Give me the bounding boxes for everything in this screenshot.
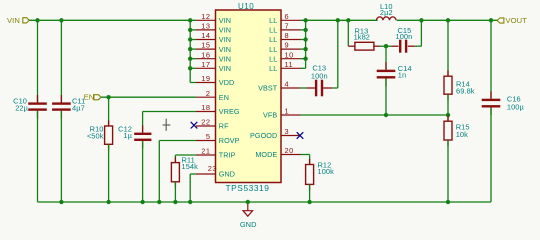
no-connect X pin 22 RF xyxy=(191,122,198,129)
svg-text:GND: GND xyxy=(240,220,257,229)
U10 pin 1 VFB xyxy=(263,107,300,120)
wire ROVP to GND xyxy=(159,141,196,203)
svg-text:RF: RF xyxy=(219,122,229,131)
junction VIN C10 xyxy=(35,18,39,22)
svg-text:VBST: VBST xyxy=(258,84,278,93)
junction snubber C14 xyxy=(384,44,388,48)
resistor R11 xyxy=(171,156,198,203)
svg-text:100n: 100n xyxy=(396,32,413,41)
svg-text:13: 13 xyxy=(201,22,210,31)
svg-text:LL: LL xyxy=(269,54,277,63)
op-amp U10 TPS53319 body xyxy=(216,10,282,183)
svg-text:VIN: VIN xyxy=(219,45,231,54)
junction LL C13 xyxy=(336,18,340,22)
junction VIN C11 xyxy=(59,18,63,22)
svg-text:LL: LL xyxy=(269,45,277,54)
svg-text:VIN: VIN xyxy=(219,35,231,44)
svg-text:69.8k: 69.8k xyxy=(456,87,475,96)
capacitor C11 xyxy=(52,20,85,202)
svg-text:100n: 100n xyxy=(311,71,328,80)
svg-text:100µ: 100µ xyxy=(507,103,525,112)
U10 pin 18 VREG xyxy=(196,103,240,116)
svg-text:19: 19 xyxy=(201,74,210,83)
U10 pin 17 VIN xyxy=(196,60,231,73)
wire GND rail xyxy=(38,201,492,203)
svg-text:6: 6 xyxy=(285,12,290,21)
ground symbol xyxy=(240,202,257,229)
junction VIN bus pin15 xyxy=(188,47,192,51)
junction VFB C14 xyxy=(384,113,388,117)
wire LL bus vertical xyxy=(301,20,306,68)
wire C13 to LL node xyxy=(332,20,338,88)
junction GND R12 xyxy=(307,200,311,204)
junction GND C11 xyxy=(59,200,63,204)
svg-text:VOUT: VOUT xyxy=(506,16,528,25)
svg-text:LL: LL xyxy=(269,26,277,35)
svg-text:TRIP: TRIP xyxy=(219,151,236,160)
svg-text:11: 11 xyxy=(285,60,294,69)
svg-text:VIN: VIN xyxy=(7,16,20,25)
svg-text:1n: 1n xyxy=(398,70,406,79)
svg-text:EN: EN xyxy=(219,93,229,102)
svg-text:<50k: <50k xyxy=(87,131,104,140)
svg-text:7: 7 xyxy=(285,22,290,31)
junction VOUT C16 xyxy=(489,18,493,22)
svg-text:LL: LL xyxy=(269,64,277,73)
wire VREG xyxy=(143,112,196,133)
capacitor C15 xyxy=(392,26,415,53)
wire GND pin 23 xyxy=(190,174,196,202)
capacitor C13 xyxy=(306,64,332,97)
capacitor C10 xyxy=(13,20,47,202)
svg-text:1k82: 1k82 xyxy=(354,32,370,41)
svg-text:4µ7: 4µ7 xyxy=(72,103,85,112)
U10 pin 8 LL xyxy=(269,31,300,44)
junction LL bus pin7 xyxy=(303,28,307,32)
junction GND R11 xyxy=(173,200,177,204)
svg-text:18: 18 xyxy=(201,103,210,112)
junction VIN bus pin17 xyxy=(188,66,192,70)
svg-text:VIN: VIN xyxy=(219,26,231,35)
svg-text:PGOOD: PGOOD xyxy=(250,131,277,140)
junction LL top xyxy=(303,18,307,22)
capacitor C14 xyxy=(377,46,412,115)
wire EN xyxy=(101,96,196,98)
hierarchical label VOUT xyxy=(497,16,527,25)
svg-text:5: 5 xyxy=(206,132,211,141)
svg-text:17: 17 xyxy=(201,60,210,69)
U10 pin 22 RF xyxy=(196,118,229,131)
svg-text:LL: LL xyxy=(269,16,277,25)
U10 pin 19 VDD xyxy=(196,74,234,87)
svg-text:1µ: 1µ xyxy=(123,131,132,140)
svg-text:3: 3 xyxy=(285,127,290,136)
U10 pin 9 LL xyxy=(269,41,300,54)
svg-text:20: 20 xyxy=(285,146,294,155)
svg-text:U10: U10 xyxy=(238,2,254,11)
junction LL bus pin10 xyxy=(303,57,307,61)
wire LL to VOUT top xyxy=(301,19,498,21)
U10 pin 15 VIN xyxy=(196,41,231,54)
junction VFB divider xyxy=(446,113,450,117)
U10 pin 5 ROVP xyxy=(196,132,240,145)
svg-text:12: 12 xyxy=(201,12,210,21)
svg-text:8: 8 xyxy=(285,31,290,40)
junction GND C12 xyxy=(140,200,144,204)
U10 pin 4 VBST xyxy=(258,80,300,93)
junction GND ROVP xyxy=(157,200,161,204)
U10 pin 14 VIN xyxy=(196,31,231,44)
junction GND symbol xyxy=(246,200,250,204)
junction VIN bus pin14 xyxy=(188,37,192,41)
wire TRIP xyxy=(175,155,196,163)
U10 reference label xyxy=(238,2,254,11)
U10 pin 2 EN xyxy=(196,89,229,102)
svg-text:9: 9 xyxy=(285,41,290,50)
wire MODE xyxy=(301,155,310,165)
svg-text:GND: GND xyxy=(219,170,235,179)
svg-text:VIN: VIN xyxy=(219,64,231,73)
svg-text:TPS53319: TPS53319 xyxy=(226,183,270,193)
svg-text:21: 21 xyxy=(201,147,210,156)
junction EN R10 xyxy=(106,95,110,99)
svg-text:4: 4 xyxy=(285,80,290,89)
junction VIN top xyxy=(188,18,192,22)
origin marker cross xyxy=(163,119,171,131)
svg-text:10: 10 xyxy=(285,50,294,59)
U10 pin 20 MODE xyxy=(255,146,300,159)
wire snubber right xyxy=(415,20,422,46)
junction GND R15 xyxy=(446,200,450,204)
svg-text:VREG: VREG xyxy=(219,107,240,116)
svg-text:22µ: 22µ xyxy=(15,103,28,112)
svg-text:23: 23 xyxy=(208,164,217,173)
hierarchical label EN xyxy=(84,92,102,101)
inductor L10 xyxy=(377,2,397,21)
resistor R10 xyxy=(87,97,113,202)
U10 value TPS53319 xyxy=(226,183,270,193)
svg-text:14: 14 xyxy=(201,31,210,40)
svg-text:154k: 154k xyxy=(182,162,199,171)
svg-text:15: 15 xyxy=(201,41,210,50)
wire VFB xyxy=(301,114,449,116)
resistor R15 xyxy=(444,115,470,202)
junction VIN bus pin13 xyxy=(188,28,192,32)
svg-text:1: 1 xyxy=(285,107,290,116)
svg-text:VDD: VDD xyxy=(219,78,234,87)
junction GND pin23 xyxy=(188,200,192,204)
U10 pin 7 LL xyxy=(269,22,300,35)
U10 pin 23 GND xyxy=(196,164,235,179)
svg-text:16: 16 xyxy=(201,50,210,59)
wire VIN bus vertical xyxy=(190,20,196,82)
hierarchical label VIN xyxy=(7,16,29,25)
junction VOUT R14 xyxy=(446,18,450,22)
no-connect X pin 3 PGOOD xyxy=(297,132,304,139)
wire VIN rail top xyxy=(29,19,196,21)
junction GND R10 xyxy=(106,200,110,204)
resistor R14 xyxy=(444,20,475,115)
svg-text:VIN: VIN xyxy=(219,54,231,63)
junction snubber left top xyxy=(346,18,350,22)
junction VIN bus pin16 xyxy=(188,57,192,61)
U10 pin 3 PGOOD xyxy=(250,127,300,140)
junction LL bus pin9 xyxy=(303,47,307,51)
svg-text:2: 2 xyxy=(206,89,211,98)
junction LL bus pin8 xyxy=(303,37,307,41)
resistor R12 xyxy=(306,159,335,202)
svg-text:100k: 100k xyxy=(318,167,335,176)
U10 pin 16 VIN xyxy=(196,50,231,63)
U10 pin 10 LL xyxy=(269,50,300,63)
svg-text:VFB: VFB xyxy=(263,111,277,120)
svg-text:MODE: MODE xyxy=(255,150,277,159)
U10 pin 21 TRIP xyxy=(196,147,236,160)
wire R13 to C15 xyxy=(380,45,392,47)
junction snubber right top xyxy=(419,18,423,22)
svg-text:LL: LL xyxy=(269,35,277,44)
capacitor C16 xyxy=(482,20,525,202)
U10 pin 13 VIN xyxy=(196,22,231,35)
capacitor C12 xyxy=(118,124,151,202)
wire snubber left xyxy=(348,20,355,46)
svg-text:22: 22 xyxy=(201,118,210,127)
U10 pin 12 VIN xyxy=(196,12,231,25)
svg-text:2µ2: 2µ2 xyxy=(380,8,393,17)
svg-text:VIN: VIN xyxy=(219,16,231,25)
svg-text:ROVP: ROVP xyxy=(219,136,240,145)
U10 pin 11 LL xyxy=(269,60,300,73)
wire VBST xyxy=(301,87,307,89)
svg-text:10k: 10k xyxy=(456,130,468,139)
resistor R13 xyxy=(354,27,380,50)
U10 pin 6 LL xyxy=(269,12,300,25)
